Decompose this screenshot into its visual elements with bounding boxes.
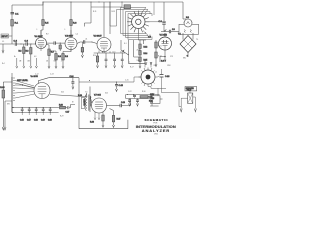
svg-text:C-27: C-27	[66, 112, 70, 114]
capacitor C-19	[120, 104, 121, 107]
tube V-7	[92, 94, 107, 113]
svg-text:R-8: R-8	[58, 56, 61, 58]
wire riser to meter	[71, 105, 76, 108]
svg-text:S-1: S-1	[124, 43, 127, 45]
wire top B+ bus	[43, 1, 183, 3]
wire left rail	[11, 5, 13, 36]
resistor column right of S1	[148, 37, 157, 67]
svg-text:C11: C11	[120, 51, 123, 53]
svg-text:R-13: R-13	[112, 11, 116, 13]
capacitor C-9	[105, 53, 108, 68]
capacitor bank rails	[14, 108, 59, 113]
wire meter to bus	[183, 18, 186, 20]
capacitor C-17	[27, 108, 31, 122]
svg-text:115V: 115V	[167, 65, 172, 67]
wire input line 2	[17, 43, 26, 45]
bridge rectifier diamond	[178, 33, 196, 58]
capacitor C-16	[20, 108, 24, 122]
svg-text:.1: .1	[36, 29, 37, 31]
svg-text:+: +	[184, 22, 185, 24]
svg-text:FIELD: FIELD	[187, 90, 192, 92]
wire to V1 grid	[27, 43, 35, 44]
svg-text:M-1: M-1	[186, 17, 189, 19]
wire heater	[164, 50, 166, 57]
component value labels	[2, 11, 198, 118]
wire S2 connections	[134, 77, 141, 82]
svg-text:C-16: C-16	[20, 120, 24, 122]
capacitor C-18	[160, 75, 164, 78]
resistor R-1	[11, 20, 14, 27]
svg-text:INPUT: INPUT	[2, 36, 9, 38]
svg-text:1951: 1951	[154, 134, 158, 136]
speaker label box	[185, 87, 197, 92]
svg-text:C-13: C-13	[50, 74, 54, 76]
svg-text:V-1 6SJ7: V-1 6SJ7	[35, 36, 44, 38]
wire meter line	[161, 31, 169, 33]
svg-text:R-7: R-7	[51, 52, 54, 54]
wire S2 to T-2	[148, 87, 158, 96]
svg-text:V-3 6SJ7: V-3 6SJ7	[94, 35, 103, 37]
tube V-3 6SJ7	[94, 35, 112, 53]
capacitor C-11	[121, 53, 124, 68]
svg-text:R-21: R-21	[158, 46, 162, 48]
svg-text:I-1: I-1	[155, 72, 157, 74]
ground arrow speaker 2	[194, 109, 196, 112]
resistor R-26	[102, 115, 104, 127]
svg-text:.1: .1	[61, 61, 62, 63]
svg-text:6.3 V: 6.3 V	[161, 61, 166, 63]
svg-text:J-1: J-1	[2, 41, 4, 43]
svg-text:C-9: C-9	[104, 51, 107, 53]
svg-text:V-7 6C5: V-7 6C5	[94, 94, 101, 96]
transformer T-3 interstage	[86, 87, 92, 113]
svg-text:C-15: C-15	[119, 85, 124, 87]
capacitor C-10	[113, 53, 116, 68]
input terminal box	[1, 34, 9, 38]
capacitor C-23a	[136, 99, 139, 107]
resistor R-2	[23, 44, 25, 66]
svg-text:5Y3: 5Y3	[170, 56, 173, 58]
wire long run to speaker	[158, 80, 181, 107]
svg-text:ANALYZER: ANALYZER	[142, 128, 170, 133]
capacitor C-27	[66, 106, 71, 113]
svg-text:C-22: C-22	[128, 91, 132, 93]
capacitor C-1	[11, 13, 15, 14]
svg-text:C-12: C-12	[35, 74, 39, 76]
wire bottom rail	[79, 82, 128, 129]
tube bottom leads	[94, 112, 103, 120]
output label box	[81, 98, 84, 109]
wire C4 to V2 grid	[55, 42, 65, 44]
row of tie-point arrows	[16, 58, 152, 68]
wire V7 output	[107, 105, 121, 107]
wire S1 routing loops	[110, 2, 166, 40]
svg-text:V-4 6C5: V-4 6C5	[31, 76, 39, 78]
svg-text:C-9: C-9	[172, 29, 175, 31]
resistor R-31	[140, 96, 148, 99]
switch column bottom	[12, 101, 14, 112]
capacitor C-19b	[41, 108, 45, 122]
wire left drop with arrow	[2, 44, 4, 50]
SET LEVEL attenuator switch	[12, 77, 29, 101]
svg-text:SEL: SEL	[183, 58, 186, 60]
capacitor C-3	[26, 42, 27, 45]
resistor R-28	[59, 105, 67, 109]
svg-text:S-2: S-2	[154, 65, 157, 67]
wire left rail to switch	[3, 73, 12, 82]
title SCHEMATIC	[136, 118, 176, 135]
resistor R-27	[110, 109, 115, 128]
tie point labels	[14, 56, 156, 67]
svg-text:C10: C10	[112, 51, 115, 53]
svg-text:115: 115	[151, 98, 154, 100]
svg-text:R-24: R-24	[78, 95, 82, 97]
svg-text:OUTPUT: OUTPUT	[82, 99, 84, 106]
ground arrow bottom left 2	[4, 127, 6, 130]
wire right bus drop	[182, 2, 184, 19]
svg-text:R-2: R-2	[19, 51, 22, 53]
cathode resistor R-8	[49, 51, 57, 66]
capacitor C-18b	[34, 108, 38, 122]
svg-text:R-6: R-6	[73, 23, 77, 25]
rotary switch S-2	[139, 62, 158, 87]
ground arrow	[23, 66, 25, 68]
svg-text:C-18: C-18	[165, 76, 170, 78]
svg-text:C-19: C-19	[41, 120, 45, 122]
svg-text:2K: 2K	[46, 61, 49, 63]
resistor R-16	[0, 82, 5, 127]
svg-text:.5M: .5M	[27, 61, 30, 63]
svg-text:1M: 1M	[19, 61, 22, 63]
svg-text:R-15: R-15	[144, 60, 148, 62]
svg-text:M: M	[72, 102, 74, 104]
metering cap C-8	[162, 2, 166, 32]
svg-text:R-22: R-22	[158, 56, 162, 58]
wires fanning to V5	[15, 81, 35, 99]
svg-text:T-3: T-3	[85, 92, 87, 94]
svg-text:T-1: T-1	[196, 39, 198, 41]
feedback network resistors	[121, 40, 147, 68]
tube V-6 6L6	[31, 76, 51, 99]
cathode resistor R-9	[62, 49, 71, 67]
svg-text:R-4: R-4	[2, 63, 5, 65]
capacitor C-9	[169, 30, 170, 33]
svg-text:C-15: C-15	[125, 80, 129, 82]
output transformer square	[181, 91, 195, 109]
svg-text:R-17: R-17	[130, 67, 134, 69]
svg-text:R-11: R-11	[93, 11, 96, 13]
ground arrow	[30, 66, 32, 68]
svg-text:C-14: C-14	[70, 76, 74, 78]
coupling cap C-4	[54, 41, 55, 44]
svg-text:115V: 115V	[150, 94, 155, 96]
lower mid rail 1	[126, 94, 160, 96]
resistor R-10	[96, 53, 98, 68]
svg-text:C-2: C-2	[14, 41, 18, 43]
svg-text:C-18: C-18	[34, 120, 38, 122]
wire V2 plate to C6	[77, 42, 83, 44]
svg-text:V-5 6X5: V-5 6X5	[160, 34, 168, 36]
meter M-1	[179, 19, 199, 34]
power transformer T-2 terminal box	[150, 96, 163, 106]
wire input line	[0, 36, 15, 44]
wire V5 plate rail	[49, 77, 79, 79]
capacitor C-25 between rails	[133, 95, 136, 99]
wire C6 to V3 grid	[85, 42, 97, 44]
ground arrow bottom left	[2, 127, 4, 130]
ground arrow	[62, 66, 64, 68]
tube V-5 6X5 rectifier	[159, 33, 172, 50]
capacitor C-22a	[128, 99, 131, 107]
svg-text:C-4: C-4	[76, 34, 79, 36]
svg-text:SW: SW	[7, 104, 10, 106]
svg-text:R-9: R-9	[65, 56, 68, 58]
svg-text:R-9: R-9	[46, 34, 49, 36]
junction dots rails	[22, 107, 51, 113]
wire plate bus V3	[85, 2, 111, 38]
cathode resistor R-7	[47, 45, 51, 67]
V3 cathode network rail	[94, 52, 125, 54]
wire rail y82	[79, 78, 134, 82]
resistor R-3	[30, 44, 32, 66]
svg-text:C-1: C-1	[15, 14, 19, 16]
resistor R-6 plate V2	[70, 2, 72, 38]
tube V-1 6SJ7	[35, 30, 47, 51]
svg-text:R-29: R-29	[60, 116, 64, 118]
svg-text:R-14: R-14	[144, 53, 148, 55]
ground arrow	[48, 66, 50, 68]
svg-text:V-4: V-4	[148, 37, 152, 39]
svg-text:6C5: 6C5	[61, 92, 64, 94]
wire V5 output lower	[50, 95, 87, 97]
rotary switch S-1	[127, 11, 149, 33]
svg-text:SPEAKER: SPEAKER	[186, 87, 195, 90]
wire top bus left segment	[12, 2, 43, 5]
wire V1 grid lead	[35, 42, 37, 44]
svg-text:6C5: 6C5	[105, 93, 108, 95]
svg-text:R-26: R-26	[90, 122, 94, 124]
svg-text:R-16: R-16	[0, 87, 5, 89]
svg-text:-: -	[192, 22, 193, 24]
svg-text:R-3: R-3	[26, 51, 29, 53]
coupling cap C-6	[83, 40, 84, 43]
junction dots	[20, 1, 141, 95]
svg-text:R-12: R-12	[144, 47, 148, 49]
ground arrow	[55, 66, 57, 68]
svg-text:V.: V.	[151, 101, 153, 103]
svg-text:V-2 6SJ7: V-2 6SJ7	[65, 35, 74, 37]
wire V1 plate to C4	[47, 42, 55, 44]
lower mid rail 2	[126, 95, 152, 99]
svg-text:R-28: R-28	[59, 105, 63, 107]
capacitor C-15	[115, 82, 124, 92]
svg-text:R10: R10	[93, 55, 96, 57]
wire second top rail	[91, 6, 122, 8]
svg-text:R-5: R-5	[45, 23, 49, 25]
svg-text:C-17: C-17	[27, 120, 31, 122]
svg-text:6.3: 6.3	[34, 56, 36, 58]
ground arrow speaker 1	[180, 109, 182, 112]
capacitor C-20	[48, 108, 52, 122]
svg-text:.01: .01	[85, 39, 87, 41]
tube V-2 6SJ7	[65, 30, 77, 52]
value labels	[93, 51, 123, 57]
svg-text:R-1: R-1	[15, 23, 19, 25]
capacitor C-2	[15, 42, 16, 45]
svg-text:R-30: R-30	[142, 91, 146, 93]
svg-text:C-3: C-3	[25, 41, 29, 43]
wiper arrow	[164, 29, 167, 32]
svg-text:R-27: R-27	[117, 119, 121, 121]
svg-text:B+: B+	[14, 56, 16, 58]
grid resistor R-6a	[59, 43, 61, 51]
svg-text:C-20: C-20	[48, 120, 52, 122]
resistor R-5 plate V1	[41, 2, 44, 38]
resistor R-4 grid leak	[81, 42, 83, 58]
svg-text:.1: .1	[64, 29, 65, 31]
capacitor C-14	[70, 76, 75, 89]
svg-text:C-19: C-19	[121, 102, 125, 104]
